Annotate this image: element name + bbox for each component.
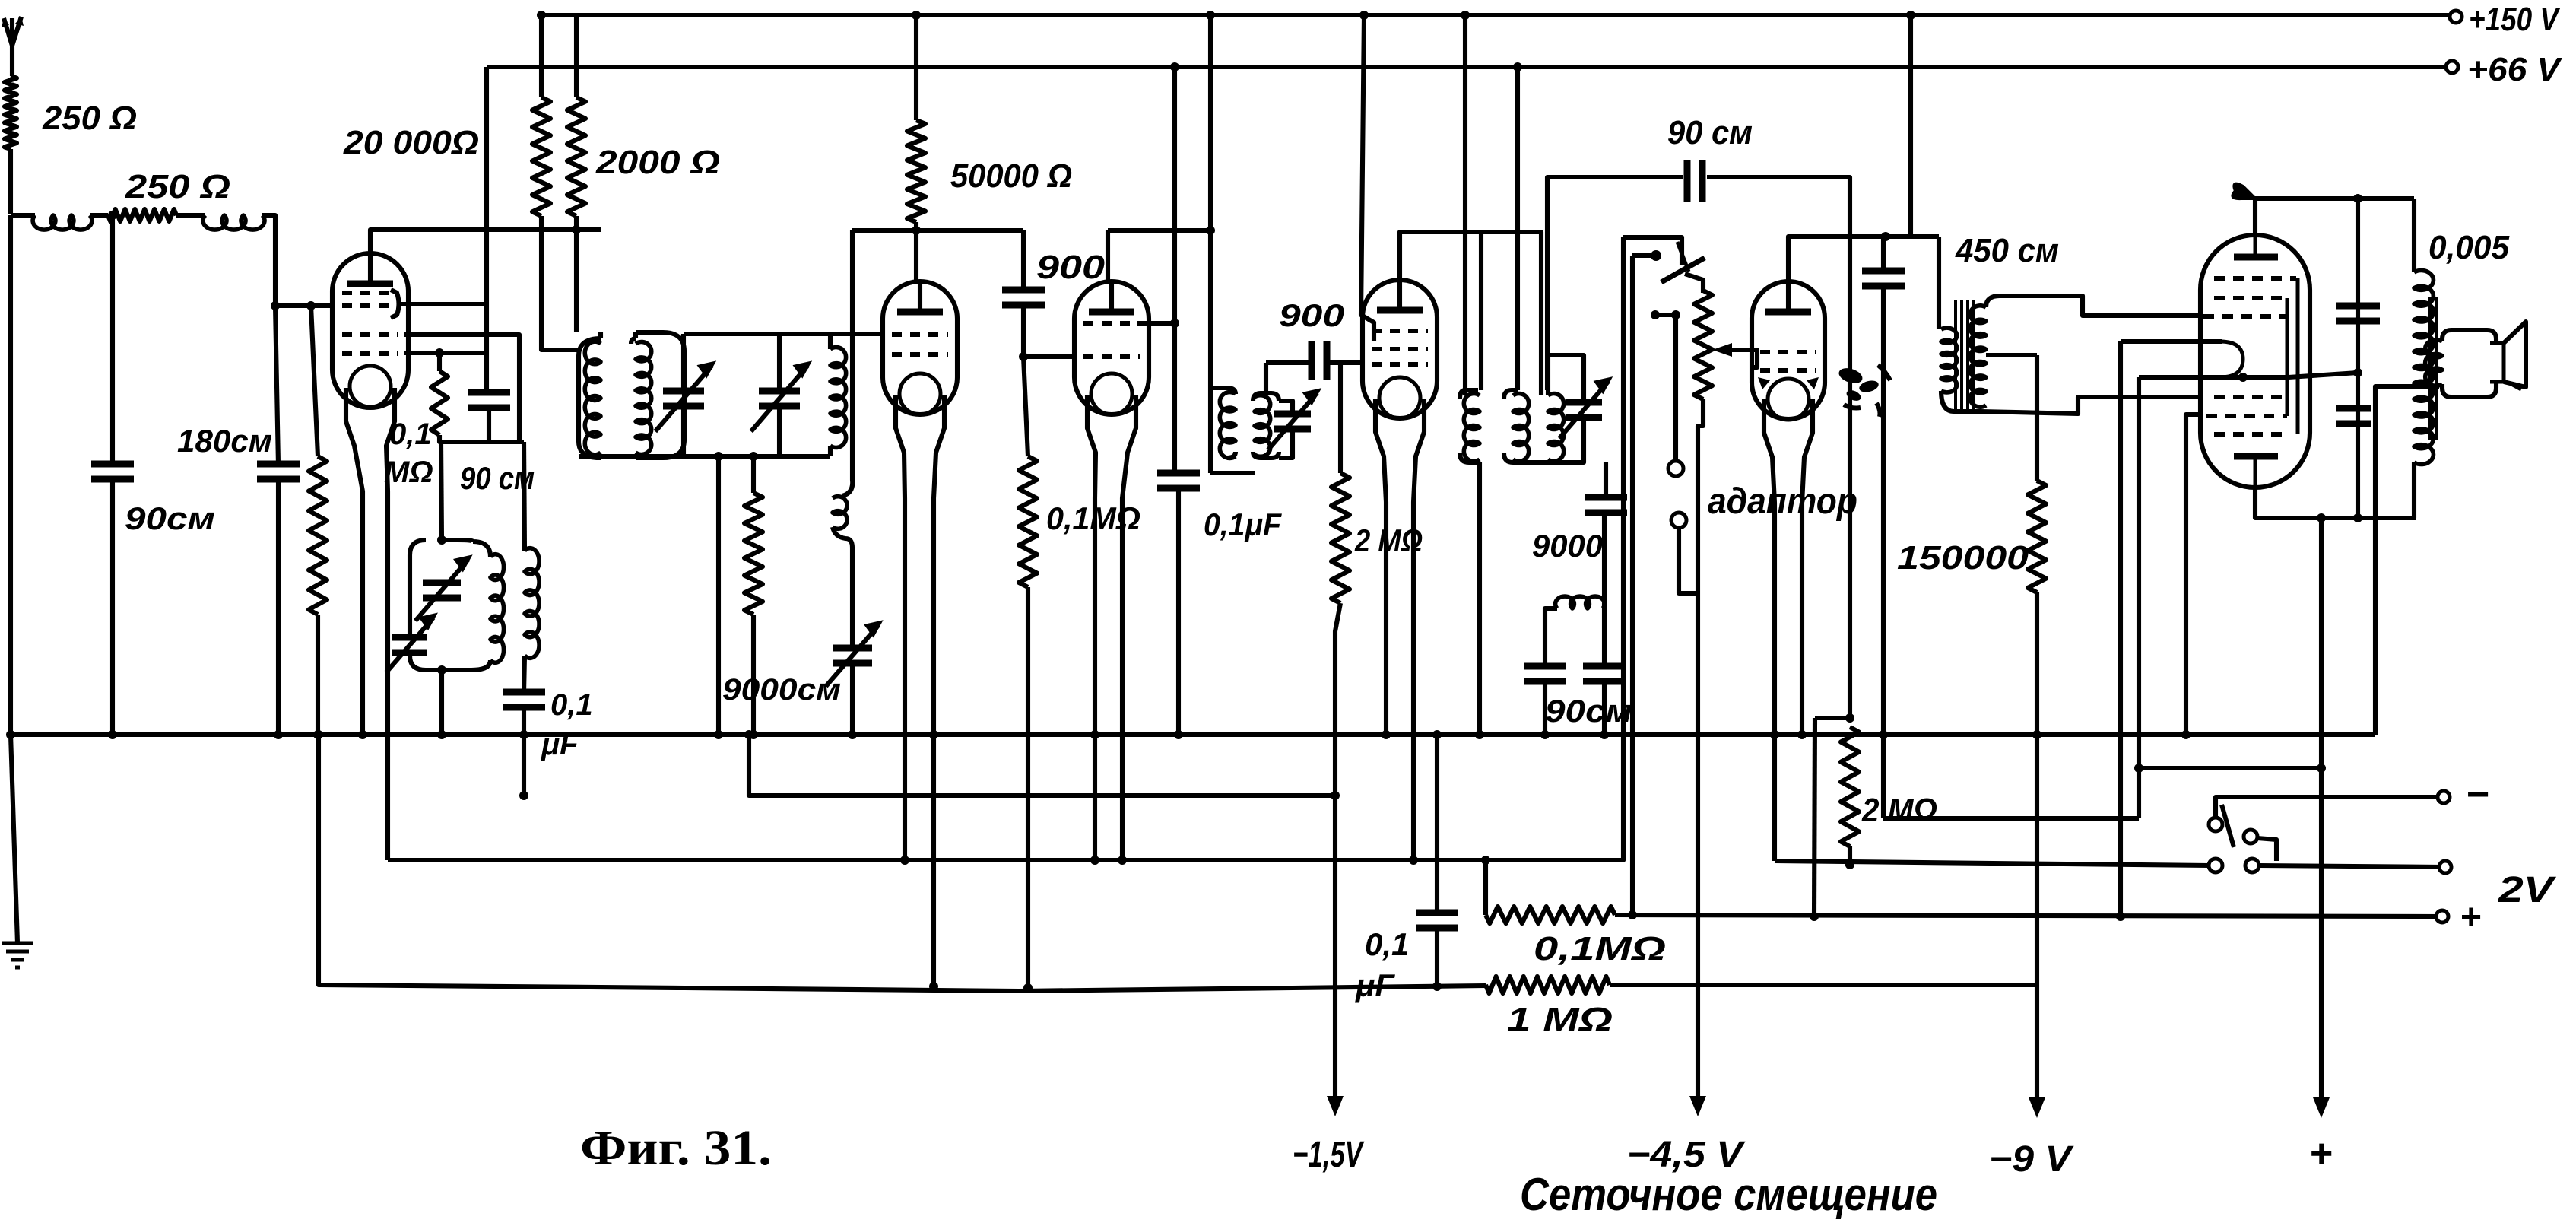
label 0.1uF-left b (541, 728, 579, 761)
label +150V (2469, 1, 2561, 38)
resistor 0.1M bias (1486, 907, 1615, 923)
node 150000 bus (2032, 730, 2041, 739)
wire V2 grid (779, 332, 883, 336)
wire det c2 down (1602, 681, 1607, 735)
coil sec ant (525, 548, 539, 659)
cathode arrows V5 (1758, 377, 1819, 389)
node V4 legL bus (1382, 730, 1391, 739)
wire pot top lead (1685, 274, 1703, 293)
svg-text:9000см: 9000см (722, 673, 841, 707)
node 0.1uF mid bus (1174, 730, 1183, 739)
tube V2 stem (896, 395, 944, 986)
coil IF2 w2 (1513, 394, 1529, 462)
node V5 legR bus (1797, 730, 1807, 739)
wire V5 +150 feed (1908, 15, 1913, 237)
wire 0.1M top (1023, 357, 1028, 456)
jack pin1 (1651, 310, 1683, 476)
node V5 anode j (1881, 232, 1890, 241)
wire IF2 +66 feed (1515, 67, 1520, 390)
label 0.1uF-left a (550, 688, 593, 722)
wire antenna chain b (90, 213, 108, 218)
wire RF top link (684, 332, 883, 336)
node switch drop j (1628, 910, 1637, 919)
transformer IF1 right box (1253, 393, 1279, 458)
wire IF1 sec top (1264, 363, 1268, 393)
wire IF1 left side (1208, 15, 1213, 473)
resistor 250ohm antenna (5, 76, 17, 149)
wire V4 anode up (1400, 232, 1541, 395)
node 20000 bus (537, 11, 546, 20)
svg-text:+: + (2310, 1132, 2333, 1176)
svg-text:−9 V: −9 V (1989, 1139, 2074, 1180)
transformer 450 core (1956, 300, 1974, 414)
node V6 cap j (2353, 194, 2362, 203)
wire +arrow (2319, 518, 2324, 1112)
label 0.1 V1a (389, 418, 432, 451)
coil box V1 (490, 554, 504, 663)
node B4 corner (744, 730, 753, 739)
tuned box V1 (410, 540, 490, 670)
wire R7 lead (437, 353, 442, 371)
wire switch drop (1630, 256, 1635, 915)
wire 50000 top (914, 15, 918, 120)
varcap VC1 (655, 362, 715, 431)
wire 900 bot (1021, 305, 1026, 357)
wire 900s right (1327, 360, 1364, 365)
node V6 cath batt (2116, 912, 2125, 921)
label minus (2467, 773, 2489, 817)
varcap VC3 (1268, 389, 1320, 450)
node 2000 anode (572, 225, 581, 234)
arrow -9V (2029, 1097, 2045, 1118)
wire VC1 bot (681, 406, 686, 456)
svg-text:2 МΩ: 2 МΩ (1861, 792, 1937, 829)
wire 450 sec mid (1986, 353, 2037, 357)
node V2 legL B5 (900, 856, 909, 865)
capacitor 900 series (1312, 341, 1327, 380)
capacitor 0.1uF mid (1157, 473, 1200, 488)
coil ant L2 (203, 215, 265, 230)
node V1 grid j2 (306, 301, 316, 310)
wire heater return (2186, 414, 2200, 735)
node IF2 +66 (1513, 62, 1522, 71)
svg-text:900: 900 (1279, 297, 1344, 333)
tube V4 (1363, 278, 1437, 418)
node C9 bus (1879, 730, 1888, 739)
coil IF2 w1 (1464, 394, 1480, 462)
node V1 grid j1 (271, 301, 280, 310)
svg-text:450 см: 450 см (1955, 232, 2059, 269)
svg-text:0,1: 0,1 (389, 418, 432, 451)
terminal +66V (2446, 61, 2458, 73)
wire VC2 top (777, 334, 782, 391)
node ant bus (6, 730, 15, 739)
svg-text:900: 900 (1036, 249, 1106, 286)
wire antenna down (8, 149, 13, 214)
capacitor 9000 (1585, 497, 1627, 513)
wire V3 grid drop (1172, 67, 1177, 474)
wire 2M right top (1815, 713, 1854, 723)
node gridleak bus (313, 730, 322, 739)
wire 90cm top left (1547, 177, 1683, 390)
jack pin2 (1671, 513, 1698, 593)
capacitor 90cm d1 (1524, 666, 1566, 681)
tube V5 (1752, 280, 1825, 420)
label -1.5V (1293, 1135, 1365, 1175)
wire IF2 bottom (1477, 462, 1482, 735)
wire V3 anode (1108, 230, 1210, 283)
label adapter (1708, 481, 1857, 522)
node V4 legR B5 (1409, 856, 1418, 865)
coil IF1 primary (1220, 392, 1236, 459)
svg-text:90см: 90см (1545, 693, 1632, 729)
svg-text:+66 V: +66 V (2467, 51, 2563, 88)
ink smudge (1837, 365, 1890, 417)
wire osc leak bot (751, 615, 756, 735)
tube V6 cathode (2200, 341, 2243, 377)
svg-text:+150 V: +150 V (2469, 1, 2561, 38)
wire V6 bottom (2255, 488, 2416, 518)
node V3 grid j (1170, 319, 1179, 328)
node V6 g3 drop j (2134, 764, 2143, 773)
wire det c13 link (1545, 608, 1557, 667)
node det bus1 (1540, 730, 1550, 739)
wire y1076 (1883, 816, 2139, 821)
wire 2000 top (574, 15, 579, 97)
node 2M B4 (1331, 791, 1340, 800)
transformer IF2 box M (1504, 390, 1518, 462)
wire filament plus drop (1810, 718, 1819, 921)
grid bracket V1 (391, 290, 399, 318)
node IF2 +150 (1461, 11, 1470, 20)
svg-text:МΩ: МΩ (384, 456, 433, 489)
wire 90cm drop (110, 215, 115, 465)
node V6 g3 j (2238, 373, 2248, 382)
wire 450 sec top (1986, 296, 2202, 316)
label 1M bias (1507, 1001, 1613, 1038)
arrow -1.5V (1327, 1096, 1344, 1116)
wire bias bus B4 (749, 735, 1335, 796)
wire 0.1M bias left (1483, 860, 1488, 915)
wire 9000 top (1604, 462, 1608, 498)
capacitor 90cm top (1687, 160, 1702, 202)
arrow -4.5V (1689, 1096, 1706, 1116)
transformer IF1 left box (1210, 388, 1255, 473)
svg-text:150000: 150000 (1897, 539, 2029, 576)
svg-text:μF: μF (1355, 967, 1395, 1003)
wire sec top (524, 442, 525, 551)
wire outcap line (2356, 199, 2360, 518)
wire 20000 top (539, 15, 544, 97)
wire V2 anode rail (852, 228, 1023, 233)
coil ant L1 (33, 215, 92, 230)
terminal minus (2438, 791, 2450, 803)
transformer IF2 box L (1460, 390, 1480, 462)
wire V6 cath drop (2118, 341, 2123, 916)
label 250ohm-1 (42, 100, 137, 137)
label 0.1uF mid (1204, 507, 1282, 542)
wire osc rail (579, 454, 830, 459)
wire 0.1uF left down (522, 707, 526, 796)
node 0.1uF bus (519, 730, 528, 739)
wire 0.1uF bias top (1435, 735, 1439, 913)
wire V1 g2 row (404, 335, 519, 442)
resistor osc leak (744, 493, 763, 615)
label 50000 (950, 157, 1072, 195)
tube V6 internal wires (2287, 278, 2298, 434)
varcap VC-box (415, 556, 471, 621)
coil RF secondary (636, 341, 652, 454)
resistor 2000 (567, 97, 585, 216)
label + bias (2310, 1132, 2333, 1176)
tube V6 top cap (2232, 184, 2414, 235)
wire V1 anode up (370, 230, 601, 253)
svg-text:−: − (2467, 773, 2489, 817)
tube V6 anode (2234, 237, 2278, 257)
node y1010 right (2317, 764, 2326, 773)
tube V3 stem (1087, 395, 1136, 860)
svg-text:90см: 90см (125, 500, 215, 536)
wire grid leak down (316, 615, 320, 735)
wire 90cm down (110, 479, 115, 735)
node 0.1M B6 (1023, 983, 1033, 993)
tube V6 grids lower (2206, 397, 2289, 434)
wire 0.1M bot (1026, 587, 1030, 988)
wire V2 anode up (914, 230, 918, 283)
tube V3 (1074, 280, 1149, 414)
node 0.1uF B4 (519, 791, 528, 800)
wire IF2 anode branch (1479, 232, 1483, 390)
label -9V (1989, 1139, 2074, 1180)
label 20000 (343, 124, 479, 161)
transformer out core (2430, 297, 2437, 440)
arrow + (2313, 1097, 2330, 1118)
wire grid-leak drop (311, 306, 318, 456)
wire box down (439, 670, 444, 735)
wire osc coil top (828, 334, 833, 349)
svg-text:+: + (2460, 897, 2482, 938)
label 2000 (595, 144, 720, 181)
wire IF2 w3 top (1548, 355, 1584, 403)
node IF1 anode j (1206, 226, 1215, 235)
capacitor out2 (2336, 408, 2371, 424)
wire R7 to box (441, 442, 442, 540)
label 90cm det (1545, 693, 1632, 729)
label 0.1M bias (1534, 930, 1666, 967)
resistor grid leak V1 (309, 456, 327, 615)
label 2V (2498, 870, 2557, 910)
wire -9V arrow line (2035, 735, 2039, 1112)
label -4.5V (1627, 1135, 1746, 1175)
node V3 legL B5 (1090, 856, 1099, 865)
label 2M right (1861, 792, 1937, 829)
node 0.1uF bias bus (1432, 730, 1442, 739)
label 900 series (1279, 297, 1344, 333)
svg-text:адаптор: адаптор (1708, 481, 1857, 522)
wire 180cm drop (275, 306, 278, 465)
wire 2M bottom (1335, 603, 1340, 1110)
node 0.1M B5 (1481, 856, 1490, 865)
wire 900 top (1021, 230, 1026, 290)
tube V2 (883, 280, 957, 414)
wire C9 top (1881, 237, 1886, 272)
node 180cm bus (274, 730, 283, 739)
wire osc leak top (751, 456, 756, 493)
node 0.1uF bias B6 (1432, 982, 1442, 991)
terminal plus (2436, 910, 2448, 923)
wire ground bus (11, 732, 2375, 737)
label 9000cm (722, 673, 841, 707)
node B6 corner (314, 730, 323, 739)
wire antenna chain c (176, 213, 205, 218)
svg-text:2V: 2V (2498, 870, 2557, 910)
wire outxfmr top (2412, 199, 2416, 272)
svg-text:1 МΩ: 1 МΩ (1507, 1001, 1613, 1038)
varcap VC4 (1559, 378, 1611, 439)
capacitor 0.1uF bias (1416, 913, 1458, 928)
caption Fig 31 (580, 1120, 772, 1176)
coil out primary (2414, 271, 2433, 465)
transformer RF left box (579, 332, 601, 458)
node osc j2 (749, 452, 758, 461)
svg-text:μF: μF (541, 728, 579, 761)
node V5 legL bus (1770, 730, 1779, 739)
wire 180cm down (276, 479, 281, 735)
node det bus2 (1600, 730, 1609, 739)
wire V6 g3 drop (2137, 377, 2141, 818)
speaker (2442, 322, 2526, 397)
antenna (2, 17, 24, 76)
wire VC3 bot (1279, 429, 1293, 458)
wire det c1 down (1543, 681, 1547, 735)
label 900 shunt (1036, 249, 1106, 286)
terminal mid (2439, 861, 2451, 873)
wire sec bottom (524, 656, 525, 693)
coil IF1 secondary (1255, 395, 1271, 457)
label 90cm top (1667, 114, 1753, 151)
wire V4 grid feed (1359, 11, 1374, 341)
wire 20000 down (541, 216, 579, 350)
varcap 9000cm (826, 621, 881, 687)
node 50000 bus (912, 11, 921, 20)
label 2M V4 (1354, 522, 1423, 558)
label 450cm (1955, 232, 2059, 269)
coil det (1556, 596, 1605, 608)
wire 9000cm down (850, 663, 855, 735)
coil osc L2 (830, 348, 846, 448)
wire to ground (11, 735, 17, 943)
wire antenna chain a (11, 213, 35, 218)
node V3 +66 (1170, 62, 1179, 71)
wire 150000 top (2035, 355, 2039, 481)
wire V1 g3 row (404, 351, 487, 355)
node osc j1 (714, 452, 723, 461)
wire 0.1uF mid down (1176, 488, 1181, 735)
tube V5 stem (1764, 399, 1813, 861)
coil RF primary (585, 341, 601, 455)
node V6 bot j (2353, 513, 2362, 522)
capacitor 900 shunt (1002, 290, 1045, 305)
wire batt minus (2279, 795, 2444, 799)
node box bus (437, 730, 446, 739)
wire 9000 mid (1602, 512, 1607, 667)
svg-text:180см: 180см (177, 423, 272, 459)
svg-text:2000 Ω: 2000 Ω (595, 144, 720, 181)
node V5 +150 (1906, 11, 1915, 20)
label 0.1 V1b (384, 456, 433, 489)
coil tickler (833, 230, 852, 648)
wire VC2 bot (777, 406, 782, 456)
wire 0.1uF bias bot (1435, 927, 1439, 986)
capacitor out1 (2336, 306, 2380, 321)
capacitor 90cm V1 (468, 392, 510, 408)
resistor 150000 (2028, 481, 2046, 592)
wire osc coil bot (828, 446, 833, 456)
resistor potentiometer (1694, 291, 1712, 399)
tube V4 stem (1375, 399, 1424, 860)
node V2 legR B6 (929, 982, 938, 991)
wire V3 grid hook (1137, 321, 1175, 326)
tube V6 envelope (2200, 235, 2310, 488)
resistor 50000 (907, 120, 925, 222)
switch battery (2209, 797, 2445, 872)
svg-text:20 000Ω: 20 000Ω (343, 124, 479, 161)
wire +66V bus (487, 65, 2452, 69)
wire bias bus B5 (388, 237, 1623, 860)
wire V1 grid link (397, 302, 487, 306)
wire 900s left (1266, 360, 1312, 365)
resistor 0.1M V1 (431, 371, 448, 435)
resistor 2M V4 (1331, 473, 1350, 603)
varcap VC2 (751, 362, 811, 431)
wire antenna ground drop (8, 215, 13, 735)
svg-text:0,1: 0,1 (1365, 926, 1409, 962)
node V3 legR B5 (1118, 856, 1127, 865)
wire bias bus B6b (1610, 983, 2037, 987)
resistor 250ohm series (108, 209, 176, 221)
svg-text:50000 Ω: 50000 Ω (950, 157, 1072, 195)
node R7 top (435, 348, 444, 357)
wire osc drop1 (716, 456, 721, 735)
wire outxfmr bot (2412, 462, 2416, 518)
wire V6 cathode entry (2121, 339, 2222, 344)
coil IF2 w3 (1548, 394, 1564, 462)
tube V6 bottom bar (2234, 456, 2278, 488)
svg-text:250 Ω: 250 Ω (125, 168, 230, 205)
label 250ohm-2 (125, 168, 230, 205)
label 180cm (177, 423, 272, 459)
capacitor C9 (1862, 271, 1905, 286)
wire IF2 +150 feed (1463, 15, 1467, 395)
wire 2M top (1338, 363, 1343, 473)
wire V1 grid line (275, 303, 334, 308)
svg-text:Фиг. 31.: Фиг. 31. (580, 1120, 772, 1176)
wire C9 bot (1881, 285, 1886, 818)
wire 2000 down (574, 216, 579, 332)
node osc bus1 (714, 730, 723, 739)
svg-text:9000: 9000 (1532, 528, 1603, 564)
node box bottom (437, 665, 446, 675)
wire V6 g3 entry (2139, 368, 2362, 377)
capacitor 180cm (257, 464, 300, 479)
label 90cm V1 (460, 460, 535, 496)
label plus batt (2460, 897, 2482, 938)
svg-text:250 Ω: 250 Ω (42, 100, 137, 137)
wire 2M right bot (1845, 846, 1854, 869)
node V2 legR bus (929, 730, 938, 739)
wire +66 corner down (484, 67, 489, 393)
wire bias bus B6 (319, 735, 1486, 991)
